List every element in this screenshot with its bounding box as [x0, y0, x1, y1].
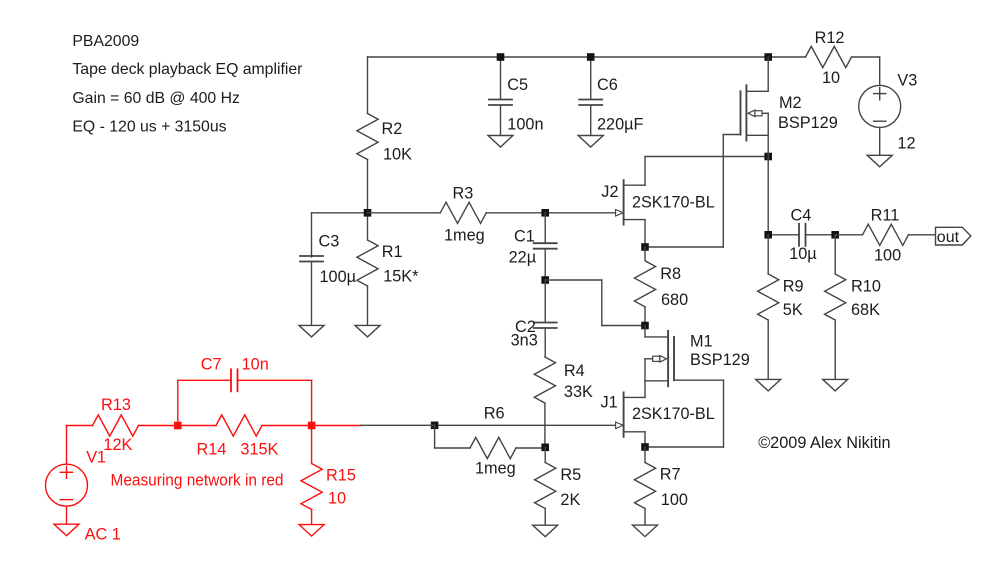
junction top rail / M2 drain	[764, 53, 772, 61]
node junction R1/R2/R3/C3	[364, 209, 372, 217]
svg-text:15K*: 15K*	[383, 268, 419, 286]
junction main wire / R6	[431, 422, 439, 430]
resistor R5	[544, 447, 546, 462]
svg-text:C5: C5	[507, 76, 528, 94]
capacitor C7 (red)	[177, 380, 179, 425]
junction M2 source node	[764, 153, 772, 161]
svg-text:V3: V3	[897, 72, 917, 90]
wire M2 source to C4	[767, 157, 769, 235]
svg-text:BSP129: BSP129	[778, 114, 838, 132]
svg-text:Tape deck playback EQ amplifie: Tape deck playback EQ amplifier	[72, 61, 302, 78]
svg-text:Measuring network in red: Measuring network in red	[111, 472, 284, 490]
svg-text:R6: R6	[484, 405, 505, 423]
MOSFET M1	[667, 331, 669, 386]
svg-text:PBA2009: PBA2009	[72, 33, 139, 50]
wire C1 bottom branch	[545, 279, 602, 281]
svg-text:BSP129: BSP129	[690, 351, 750, 369]
svg-text:10K: 10K	[383, 146, 412, 164]
svg-text:EQ - 120 us + 3150us: EQ - 120 us + 3150us	[72, 119, 226, 136]
ground R7	[633, 525, 658, 537]
svg-text:10n: 10n	[242, 356, 269, 374]
wire top rail	[368, 56, 769, 58]
svg-text:R11: R11	[871, 207, 900, 225]
svg-text:C1: C1	[514, 228, 535, 246]
svg-text:315K: 315K	[240, 441, 278, 459]
svg-text:R13: R13	[101, 396, 131, 414]
svg-text:C6: C6	[597, 76, 618, 94]
ground R1	[355, 325, 380, 337]
svg-text:R12: R12	[815, 29, 845, 47]
junction R3/C1/J2 gate	[541, 209, 549, 217]
svg-text:1meg: 1meg	[475, 460, 516, 478]
capacitor C4	[768, 234, 799, 236]
svg-text:10: 10	[328, 490, 346, 508]
svg-text:2K: 2K	[560, 491, 580, 509]
resistor R1	[367, 213, 369, 240]
svg-text:10: 10	[822, 69, 840, 87]
svg-text:M2: M2	[779, 94, 802, 112]
wire J2 drain to M2 source	[645, 156, 768, 158]
svg-text:R4: R4	[564, 362, 585, 380]
ground R10	[823, 379, 848, 391]
resistor R13 (red)	[67, 425, 93, 427]
capacitor C3	[312, 212, 368, 214]
svg-text:C4: C4	[791, 206, 812, 224]
svg-text:100: 100	[661, 491, 688, 509]
wire red to black transition	[312, 425, 361, 427]
svg-text:AC 1: AC 1	[85, 526, 121, 544]
svg-text:R8: R8	[660, 265, 681, 283]
junction R8 bottom / M1 drain	[641, 322, 649, 330]
junction C1 bottom	[541, 276, 549, 284]
wire R12 to V3	[852, 56, 880, 58]
svg-text:2SK170-BL: 2SK170-BL	[632, 194, 715, 212]
capacitor C5	[500, 57, 502, 99]
junction C6 top	[587, 53, 595, 61]
MOSFET M2	[745, 85, 747, 140]
resistor R4	[534, 357, 555, 403]
ground R15 (red)	[299, 525, 324, 537]
wire J2 source to M2 gate	[645, 246, 723, 248]
svg-text:5K: 5K	[783, 301, 803, 319]
svg-text:R14: R14	[197, 441, 227, 459]
junction C4 left / R9	[764, 231, 772, 239]
svg-text:22µ: 22µ	[509, 249, 536, 267]
svg-text:R1: R1	[382, 243, 403, 261]
svg-text:680: 680	[661, 291, 688, 309]
svg-text:Gain = 60 dB @ 400 Hz: Gain = 60 dB @ 400 Hz	[72, 90, 240, 107]
JFET J1	[623, 392, 625, 436]
svg-text:J2: J2	[601, 183, 618, 201]
voltage source V1 (red)	[66, 426, 68, 465]
junction R4/R5/R6	[541, 444, 549, 452]
capacitor C1	[544, 213, 546, 243]
capacitor C2	[544, 280, 546, 323]
svg-text:100µ: 100µ	[320, 268, 357, 286]
svg-text:©2009 Alex Nikitin: ©2009 Alex Nikitin	[758, 434, 890, 452]
svg-text:10µ: 10µ	[789, 245, 817, 263]
svg-text:68K: 68K	[851, 301, 880, 319]
junction J1 source / R7 / M1 gate	[641, 443, 649, 451]
resistor R10	[834, 235, 836, 274]
svg-text:R7: R7	[660, 466, 681, 484]
svg-text:M1: M1	[690, 332, 713, 350]
junction C5 top	[497, 53, 505, 61]
svg-text:2SK170-BL: 2SK170-BL	[632, 405, 715, 423]
junction J2 source / R8 top	[641, 243, 649, 251]
resistor R14 (red)	[178, 425, 216, 427]
svg-text:R9: R9	[783, 278, 804, 296]
ground C3	[299, 325, 324, 337]
resistor R6	[434, 425, 436, 448]
port out	[936, 227, 971, 245]
resistor R3	[368, 212, 441, 214]
svg-text:C3: C3	[319, 233, 340, 251]
svg-text:J1: J1	[601, 394, 618, 412]
ground V3	[867, 155, 892, 167]
resistor R7	[644, 447, 646, 463]
ground C6	[578, 136, 603, 148]
ground R9	[756, 379, 781, 391]
svg-text:100: 100	[874, 246, 901, 264]
junction R13/R14/C7 (red)	[174, 422, 182, 430]
svg-text:R15: R15	[326, 467, 356, 485]
JFET J2	[623, 180, 625, 224]
svg-text:R5: R5	[560, 466, 581, 484]
capacitor C6	[590, 57, 592, 99]
svg-text:12K: 12K	[103, 436, 132, 454]
junction R14/R15 (red)	[308, 422, 316, 430]
resistor R15 (red)	[311, 426, 313, 464]
resistor R2	[367, 57, 369, 114]
svg-text:220µF: 220µF	[597, 116, 644, 134]
svg-text:R10: R10	[851, 278, 881, 296]
svg-text:R2: R2	[382, 120, 403, 138]
svg-text:C7: C7	[201, 356, 222, 374]
svg-text:out: out	[937, 229, 960, 246]
svg-text:R3: R3	[453, 185, 474, 203]
ground V1 (red)	[54, 524, 79, 536]
voltage source V3	[859, 85, 901, 127]
svg-text:1meg: 1meg	[444, 227, 485, 245]
svg-text:3n3: 3n3	[511, 332, 538, 350]
resistor R12	[806, 46, 852, 67]
svg-text:33K: 33K	[564, 383, 593, 401]
resistor R8	[644, 247, 646, 260]
resistor R11	[835, 234, 862, 236]
ground C5	[488, 136, 513, 148]
resistor R9	[767, 235, 769, 274]
svg-text:100n: 100n	[507, 116, 543, 134]
junction C4 right / R10 / R11	[831, 231, 839, 239]
svg-text:12: 12	[897, 135, 915, 153]
ground R5	[533, 525, 558, 537]
